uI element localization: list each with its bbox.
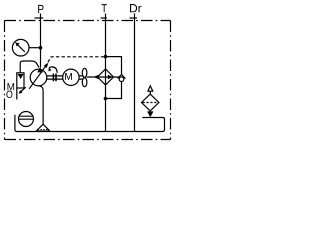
electric motor M1 xyxy=(63,69,79,85)
filter outlet triangle xyxy=(147,111,153,117)
pump outlet triangle xyxy=(37,67,43,72)
motor letter M xyxy=(65,73,72,80)
wire compensator drain xyxy=(16,88,18,100)
filter dashed element xyxy=(143,102,158,104)
compensator adjust arrow xyxy=(21,87,26,91)
breather arrow (hollow) xyxy=(148,86,153,91)
wire pilot line valve-to-pump xyxy=(20,61,39,73)
breather stub xyxy=(149,91,151,94)
node junction T/bypass xyxy=(104,55,108,59)
cooler air line xyxy=(87,76,119,78)
port P label xyxy=(38,5,43,13)
wire T line xyxy=(105,14,107,132)
wire bypass upper xyxy=(106,57,122,75)
wire pump case drain (dashed) xyxy=(45,57,105,67)
port T label xyxy=(102,4,107,12)
shaft motor-fan xyxy=(79,76,83,79)
cooler arrow right xyxy=(108,75,113,79)
wire Dr line xyxy=(134,14,136,132)
check valve seat xyxy=(118,74,126,78)
wire P line xyxy=(40,14,42,68)
node junction gauge/P xyxy=(39,46,43,50)
label M xyxy=(8,83,15,90)
pump P1 (variable displacement) xyxy=(30,69,47,86)
filter outlet stub xyxy=(149,110,151,113)
suction strainer triangle xyxy=(36,124,50,131)
wire bypass lower xyxy=(106,81,122,98)
pump variable arrow xyxy=(29,66,46,89)
node junction T/bypass lower xyxy=(104,97,108,101)
check valve ball xyxy=(119,77,124,82)
coupling ticks xyxy=(53,74,56,82)
pressure gauge xyxy=(12,39,29,56)
strainer mesh xyxy=(38,129,49,131)
cooler arrow left xyxy=(94,75,99,79)
suction line xyxy=(39,86,43,125)
fan blades xyxy=(82,68,87,77)
wire gauge to P xyxy=(29,47,41,49)
port Dr label xyxy=(130,4,141,12)
cooler diamond xyxy=(98,69,114,85)
enclosure border (dash-dot) xyxy=(5,20,171,22)
port P tick xyxy=(35,17,44,19)
level gauge xyxy=(19,112,34,127)
rotation arrow xyxy=(49,67,57,73)
compensator valve body xyxy=(17,73,24,88)
tank outline xyxy=(15,115,165,132)
filter/breather diamond xyxy=(142,94,159,111)
port Dr tick xyxy=(130,17,138,19)
shaft pump-motor xyxy=(47,76,63,79)
label O xyxy=(6,91,12,98)
compensator flow triangle xyxy=(18,74,24,79)
port T tick xyxy=(101,17,107,19)
